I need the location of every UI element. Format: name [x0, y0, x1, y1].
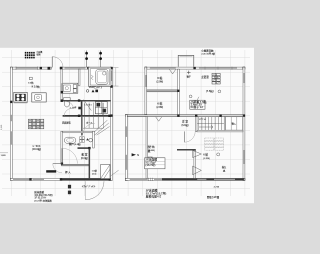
1F right wall post mid — [110, 114, 112, 116]
bath drain circle — [103, 72, 106, 75]
svg-text:2,730: 2,730 — [148, 157, 154, 159]
terrace side line — [84, 181, 86, 200]
bathroom inner — [90, 69, 109, 85]
2F bottom window e2 — [214, 179, 235, 180]
1F top wall post c — [60, 67, 63, 70]
washitsu door leaf W — [53, 163, 62, 165]
washitsu door arc N — [62, 148, 77, 163]
dining table grid — [28, 119, 43, 129]
svg-text:6 帖: 6 帖 — [203, 152, 208, 156]
2F childroom divider h — [177, 149, 196, 151]
2F futon grid — [205, 138, 224, 150]
1F left wall window 2 — [11, 131, 12, 144]
center tri — [86, 138, 89, 140]
svg-text:屋根勾配4寸: 屋根勾配4寸 — [146, 194, 162, 198]
svg-text:(2.0M): (2.0M) — [156, 107, 163, 109]
svg-text:(2.5M): (2.5M) — [203, 158, 210, 160]
svg-text:(0.5): (0.5) — [92, 173, 96, 175]
1F top wall window w — [16, 68, 38, 69]
svg-text:延床面積: 延床面積 — [33, 190, 44, 194]
center room bottom post — [88, 147, 90, 149]
oshiire top wall — [61, 164, 88, 166]
center circle sym — [89, 138, 93, 142]
center room top wall — [63, 131, 95, 133]
table dots — [30, 120, 43, 128]
1F hatch legend block — [25, 52, 35, 59]
1F top wall east — [60, 67, 89, 69]
svg-text:主寝室: 主寝室 — [201, 75, 209, 79]
1F bottom window w2 — [33, 179, 45, 180]
1F bottom wall — [10, 178, 111, 180]
2F right wall — [243, 67, 245, 180]
bath symbols — [86, 90, 98, 93]
1F right wall post 2 — [110, 85, 113, 88]
2F room2 door mark — [156, 117, 162, 121]
2F child2 circ — [217, 153, 220, 156]
1F top wall post a — [10, 67, 12, 69]
2F top post e — [243, 67, 246, 70]
svg-text:抜: 抜 — [148, 149, 151, 153]
2F kanki tri — [223, 169, 226, 171]
2F triangle 2 — [193, 166, 202, 175]
stairs top post a — [78, 115, 80, 117]
svg-text:1 2 3 4 5: 1 2 3 4 5 — [84, 103, 93, 106]
left dim tick — [0, 152, 8, 154]
washroom left post — [61, 91, 64, 94]
1F left wall — [10, 67, 12, 180]
2F bedroom closet hatch — [212, 73, 220, 84]
2F top window east — [199, 68, 237, 69]
2F stair arrow — [199, 126, 213, 129]
module grid — [2, 50, 250, 196]
2F room1 door mark — [169, 69, 175, 74]
2F label box attic dividers — [190, 103, 205, 106]
2F label box leader — [197, 97, 199, 100]
2F left wall lower — [125, 115, 127, 181]
tokonoma box — [101, 165, 110, 179]
center oval tub — [64, 137, 75, 143]
2F shushin dot — [218, 90, 221, 93]
2F notes — [146, 188, 167, 198]
kitchen counter stove — [14, 92, 27, 102]
2F yoshitsu door leaf — [183, 131, 185, 142]
center room bottom wall — [78, 147, 91, 149]
svg-text:(2.0M): (2.0M) — [156, 82, 163, 84]
washitsu door leaf N — [61, 148, 63, 163]
1F bottom post a — [29, 178, 31, 180]
wall washroom left — [61, 69, 63, 102]
stairs top post b — [108, 115, 110, 117]
2F right window 2 — [243, 150, 244, 164]
oshiire stub wall — [46, 170, 56, 172]
vent pin 1 — [85, 51, 88, 68]
2F wall rooms divider v — [178, 69, 180, 115]
svg-text:N 梯子 12: N 梯子 12 — [191, 105, 204, 109]
2F label box attic — [190, 100, 205, 109]
entrance door arc — [52, 57, 63, 68]
wall mid horizontal — [63, 100, 111, 102]
washitsu door arc W — [53, 164, 62, 173]
svg-text:3,640: 3,640 — [1, 124, 3, 130]
1F bottom post c — [109, 178, 112, 181]
wall hall lower — [81, 102, 83, 117]
svg-text:6 帖: 6 帖 — [157, 76, 162, 80]
2F childroom divider v — [194, 151, 196, 179]
bath fold door — [91, 75, 93, 80]
kitchen counter sink — [32, 93, 46, 102]
2F divider post — [177, 90, 179, 92]
svg-text:(7.5帖): (7.5帖) — [206, 89, 214, 93]
wall LDK/hall — [61, 131, 63, 164]
2F mid circle sym — [189, 95, 192, 98]
2F closet hatch ticks — [212, 74, 219, 84]
2F left post low — [145, 114, 148, 117]
2F left post bottom — [125, 178, 128, 181]
balcony inner line — [180, 56, 193, 58]
1F right wall post top — [110, 67, 112, 69]
2F wic inner — [231, 117, 237, 130]
hall post — [78, 107, 81, 110]
svg-text:2,730: 2,730 — [214, 187, 220, 189]
1F top window e — [65, 68, 86, 69]
2F left lower window 1 — [126, 126, 127, 136]
2F jog wall — [125, 115, 146, 117]
toilet — [64, 98, 71, 107]
washitsu door post — [61, 163, 63, 165]
oshiire divider — [89, 149, 91, 179]
hall door arc — [83, 123, 95, 135]
2F understairs wall h — [197, 130, 243, 132]
balcony bump — [178, 55, 194, 66]
2F bottom wall — [125, 178, 244, 180]
2F main divider posts — [177, 114, 179, 116]
terrace door arc — [85, 181, 104, 200]
2F hall wall v — [146, 117, 148, 179]
1F top wall post d — [87, 67, 89, 69]
entrance door leaf — [51, 57, 53, 68]
svg-text:間取り2F図: 間取り2F図 — [207, 195, 220, 199]
mid wall post a — [61, 99, 63, 101]
1F right wall window — [111, 71, 112, 82]
left dim vertical — [1, 124, 3, 130]
gap vertical text — [148, 145, 154, 159]
1F bottom post b — [60, 178, 62, 180]
1F right wall — [111, 67, 113, 180]
svg-text:L･D K: L･D K — [33, 144, 41, 148]
center oval inner — [67, 138, 74, 142]
terrace marker blobs — [68, 185, 71, 194]
2F stairwell wall v — [195, 117, 197, 132]
2F right window 1 — [243, 73, 244, 83]
vanity counter — [61, 83, 77, 93]
svg-text:6 帖: 6 帖 — [150, 145, 155, 149]
2F label box attic lines — [190, 100, 207, 109]
wall stairs top — [63, 115, 111, 117]
stair arrow diagonal — [83, 100, 91, 111]
2F wic box — [226, 117, 243, 130]
1F left wall window 1 — [11, 115, 12, 121]
bathtub — [96, 70, 108, 85]
2F bottom dark e — [162, 178, 244, 180]
2F top window — [150, 68, 176, 69]
2F main divider h — [127, 115, 243, 117]
2F wall rooms divider h — [147, 90, 178, 92]
svg-text:和 室: 和 室 — [80, 152, 87, 156]
2F bottom window w — [130, 179, 148, 180]
wall stairs left — [81, 117, 82, 136]
vanity sink — [63, 85, 70, 91]
bathroom walls — [88, 67, 111, 86]
washroom left door gray — [61, 83, 62, 91]
kitchen hatch base — [14, 102, 27, 104]
2F label box area lines — [145, 158, 157, 168]
toilet door arc — [64, 108, 72, 116]
1F bottom wall dark e — [61, 178, 111, 180]
sink bowl — [35, 94, 42, 100]
wall washroom/bath divider — [78, 69, 80, 85]
tokonoma leader — [110, 170, 119, 176]
2F left lower window 2 — [126, 155, 127, 170]
stove unit — [15, 94, 26, 101]
2F top post w — [145, 67, 148, 70]
2F left upper window — [145, 75, 146, 87]
1F stair treads — [83, 103, 110, 136]
paper white band — [0, 48, 254, 203]
svg-text:小屋裏収納: 小屋裏収納 — [200, 48, 214, 52]
background gray mat — [0, 0, 254, 254]
2F triangle 1 — [193, 150, 202, 157]
1F left wall post low — [10, 178, 12, 180]
1F bottom window w — [13, 179, 30, 180]
2F label box area — [145, 158, 165, 169]
1F top wall ticks — [16, 66, 38, 70]
1F top wall post b2 — [48, 67, 51, 70]
washer cells — [95, 102, 107, 114]
kitchen sym sq — [29, 77, 32, 79]
washer unit box — [95, 102, 107, 114]
gap arrow — [132, 153, 136, 156]
2F shushin circ — [215, 76, 218, 79]
1F top wall post b — [40, 67, 42, 69]
2F top post m — [193, 67, 195, 69]
1F notes — [33, 190, 52, 202]
svg-text:6 帖: 6 帖 — [157, 102, 162, 106]
center room right wall — [93, 131, 95, 148]
vent pin 2 — [99, 51, 102, 68]
svg-text:(15.7坪): (15.7坪) — [145, 163, 155, 167]
2F jog post — [125, 114, 128, 117]
2F top wall — [145, 67, 245, 69]
2F bottom window m — [154, 179, 162, 180]
stairs right rail — [102, 103, 104, 128]
vanity circle — [65, 87, 68, 90]
2F left wall upper — [145, 67, 147, 116]
vanity sq2 — [73, 89, 76, 93]
2F right post mid — [243, 114, 245, 116]
bath dim line — [113, 68, 119, 87]
center grid — [80, 137, 85, 143]
2F stair treads — [197, 117, 224, 130]
2F bottom tick marks — [149, 178, 153, 181]
2F right post low — [243, 178, 246, 181]
tokonoma diagonals — [101, 165, 110, 179]
svg-text:(18.0帖): (18.0帖) — [32, 147, 41, 151]
svg-text:1,820: 1,820 — [1, 155, 7, 157]
sink circle — [37, 96, 40, 99]
bathtub inner — [97, 71, 106, 83]
washroom door arc — [66, 102, 73, 109]
2F top ticks — [205, 67, 232, 70]
1F top wall west — [10, 67, 51, 69]
2F label box area divider — [145, 161, 165, 164]
2F bottom window e1 — [197, 179, 206, 180]
2F plus sym — [187, 71, 191, 75]
mid wall post b — [78, 99, 80, 101]
2F closet wall v — [224, 117, 225, 131]
1F left wall post mid — [10, 101, 12, 103]
svg-text:洋 室: 洋 室 — [182, 119, 188, 123]
2F yoshitsu door arc — [184, 131, 195, 142]
vanity sq1 — [73, 85, 76, 89]
svg-text:押 入: 押 入 — [65, 170, 71, 174]
svg-text:K 3.0帖: K 3.0帖 — [32, 84, 41, 88]
